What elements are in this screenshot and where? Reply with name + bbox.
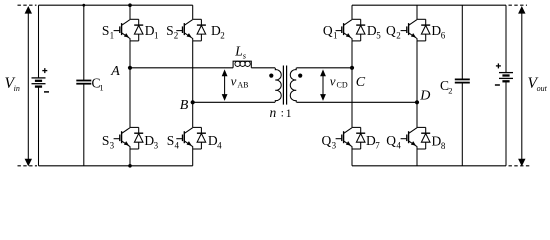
svg-text:S: S (166, 23, 174, 38)
svg-text:S: S (102, 23, 110, 38)
svg-text:in: in (14, 84, 20, 93)
svg-text:CD: CD (337, 81, 348, 90)
svg-text:3: 3 (154, 140, 159, 150)
svg-text:4: 4 (217, 141, 222, 151)
svg-text:4: 4 (396, 140, 401, 150)
svg-text::: : (281, 106, 284, 120)
svg-text:Q: Q (386, 23, 396, 38)
svg-text:v: v (231, 73, 237, 88)
svg-text:1: 1 (154, 30, 159, 40)
svg-text:2: 2 (220, 31, 225, 41)
svg-text:8: 8 (441, 141, 446, 151)
svg-text:S: S (102, 133, 110, 148)
svg-text:1: 1 (286, 108, 292, 120)
svg-text:2: 2 (448, 86, 452, 96)
svg-text:1: 1 (99, 82, 103, 92)
svg-text:3: 3 (110, 140, 115, 150)
svg-text:v: v (330, 73, 336, 88)
svg-text:6: 6 (441, 30, 446, 40)
svg-text:out: out (537, 84, 548, 93)
svg-text:Q: Q (322, 133, 332, 148)
svg-text:Q: Q (386, 133, 396, 148)
svg-text:1: 1 (110, 30, 115, 40)
svg-text:n: n (270, 105, 277, 120)
svg-text:AB: AB (237, 81, 248, 90)
svg-text:2: 2 (174, 31, 179, 41)
svg-text:A: A (110, 64, 120, 79)
svg-text:7: 7 (375, 140, 380, 150)
svg-text:D: D (419, 89, 430, 104)
svg-text:1: 1 (333, 30, 338, 40)
svg-text:3: 3 (332, 140, 337, 150)
svg-text:4: 4 (175, 141, 180, 151)
svg-text:Q: Q (323, 23, 333, 38)
svg-text:L: L (234, 43, 243, 58)
svg-text:B: B (180, 98, 189, 113)
svg-text:5: 5 (376, 30, 381, 40)
svg-text:2: 2 (396, 30, 401, 40)
svg-text:C: C (356, 75, 366, 90)
svg-text:S: S (167, 133, 175, 148)
